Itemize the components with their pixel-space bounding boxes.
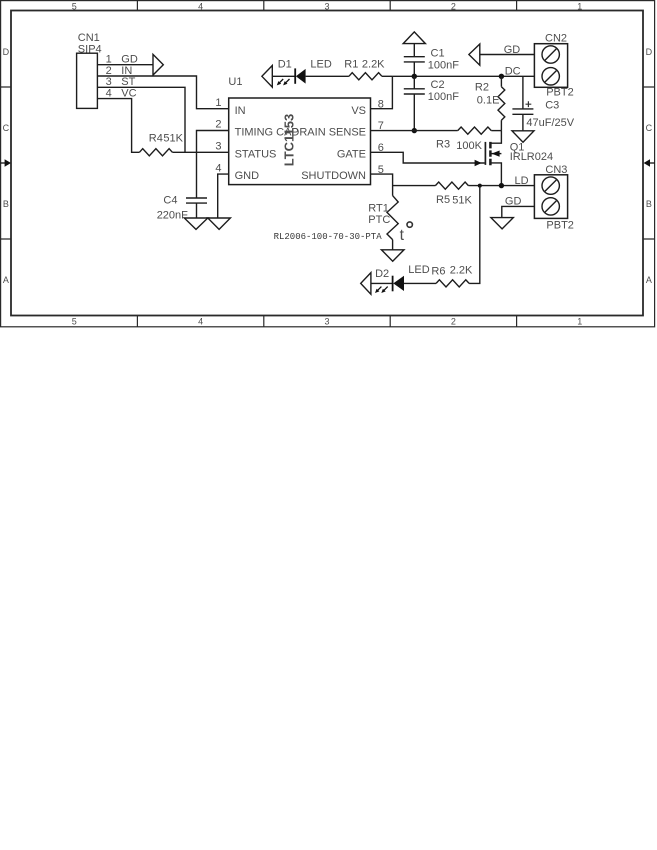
wire rail to R2 — [500, 76, 502, 86]
frame column ticks bottom — [137, 316, 516, 327]
transistor Q1 gate bar — [484, 142, 486, 165]
svg-text:SIP4: SIP4 — [78, 43, 102, 55]
svg-text:R3: R3 — [436, 138, 450, 150]
svg-text:D2: D2 — [375, 268, 389, 280]
svg-text:IRLR024: IRLR024 — [510, 151, 553, 163]
wire U1 DRAIN SENSE pin7 to R3 — [371, 130, 458, 132]
D2 emission arrows — [375, 287, 388, 293]
svg-text:3: 3 — [324, 1, 329, 11]
svg-text:LED: LED — [408, 264, 429, 276]
svg-text:C1: C1 — [431, 48, 445, 60]
svg-text:t: t — [400, 227, 405, 244]
Q1 channel segments — [489, 142, 492, 165]
svg-text:C4: C4 — [163, 194, 177, 206]
connector CN1 body — [77, 53, 98, 108]
svg-text:3: 3 — [106, 76, 112, 88]
wire GD to CN2 pin1 — [480, 54, 535, 56]
svg-text:100nF: 100nF — [428, 59, 459, 71]
wire port to D1 cathode — [272, 75, 295, 77]
resistor R1 — [349, 73, 382, 80]
svg-text:D: D — [3, 47, 10, 57]
wire R6 up to LD node — [469, 186, 480, 284]
svg-text:3: 3 — [324, 317, 329, 327]
svg-text:DRAIN SENSE: DRAIN SENSE — [291, 127, 366, 139]
svg-text:A: A — [3, 275, 9, 285]
svg-text:LED: LED — [310, 59, 331, 71]
svg-text:CN3: CN3 — [545, 164, 567, 176]
frame row ticks right — [643, 87, 655, 239]
svg-text:DC: DC — [505, 65, 521, 77]
svg-text:1: 1 — [577, 1, 582, 11]
svg-text:GD: GD — [121, 54, 138, 66]
LED D2 triangle — [393, 276, 404, 291]
resistor R3 — [458, 127, 492, 134]
svg-text:U1: U1 — [228, 76, 242, 88]
svg-text:VS: VS — [351, 105, 366, 117]
capacitor C3 plus sign — [526, 101, 532, 107]
LED D2 cathode bar — [392, 276, 394, 292]
svg-text:D1: D1 — [278, 59, 292, 71]
svg-text:LD: LD — [515, 175, 529, 187]
svg-text:IN: IN — [121, 65, 132, 77]
svg-text:2: 2 — [451, 317, 456, 327]
svg-text:100nF: 100nF — [428, 91, 459, 103]
wire U1 SHUTDOWN pin5 down — [371, 174, 393, 196]
CN2 screw terminal 2 — [542, 68, 559, 85]
wire CN1 pin2 IN to U1 pin1 — [97, 76, 228, 109]
svg-text:RT1: RT1 — [368, 202, 389, 214]
LED D1 triangle — [296, 69, 306, 84]
CN3 screw terminal 2 — [542, 198, 559, 215]
ground under CN3 — [491, 218, 513, 229]
frame row letters right — [646, 47, 653, 285]
wire C3 to ground — [522, 114, 524, 131]
svg-text:R5: R5 — [436, 194, 450, 206]
power symbol above C1 — [403, 32, 425, 44]
svg-text:GATE: GATE — [337, 148, 366, 160]
svg-text:1: 1 — [577, 317, 582, 327]
wire VS rail to CN2 — [392, 75, 534, 77]
frame inner border — [11, 11, 643, 316]
svg-text:2.2K: 2.2K — [362, 59, 385, 71]
wire RT1 to ground — [392, 240, 394, 250]
capacitor C4 — [186, 198, 207, 203]
connector CN2 body — [534, 44, 567, 88]
wire D1 to R1 — [306, 75, 349, 77]
wire CN3 pin2 GD to ground — [502, 206, 535, 217]
op-amp U1 LTC1153 box — [229, 98, 371, 185]
svg-text:4: 4 — [198, 317, 203, 327]
svg-text:IN: IN — [235, 105, 246, 117]
svg-text:PBT2: PBT2 — [546, 220, 574, 232]
wire R5 to LD line and CN3 — [468, 185, 534, 187]
svg-text:2: 2 — [106, 65, 112, 77]
wire CN1 pin3 ST to STATUS line — [97, 87, 185, 152]
port arrow at D1 — [262, 66, 272, 88]
svg-text:5: 5 — [72, 1, 77, 11]
svg-text:3: 3 — [215, 141, 221, 153]
svg-text:C3: C3 — [545, 99, 559, 111]
svg-text:1: 1 — [215, 97, 221, 109]
LED D1 cathode bar — [294, 68, 296, 83]
frame column numbers bottom — [72, 317, 583, 327]
wire CN1 pin4 VC down to R4 — [97, 99, 139, 153]
CN2 screw terminal 1 — [542, 46, 559, 63]
frame outer border — [1, 1, 655, 327]
ground under C3 — [512, 131, 534, 142]
svg-text:C: C — [3, 123, 10, 133]
wire R4 to U1 STATUS pin3 — [172, 151, 228, 153]
wire VS pin8 riser — [371, 76, 393, 108]
svg-text:220nF: 220nF — [157, 210, 188, 222]
D1 emission arrows — [277, 79, 290, 85]
wire U1 GND pin4 to ground — [218, 174, 229, 218]
wire C1 to rail — [413, 62, 415, 76]
frame column ticks top — [137, 1, 516, 11]
capacitor C2 — [404, 89, 425, 94]
svg-text:2: 2 — [451, 1, 456, 11]
svg-text:0.1E: 0.1E — [477, 94, 500, 106]
svg-text:GND: GND — [235, 170, 260, 182]
svg-text:C2: C2 — [431, 79, 445, 91]
frame centering arrow right — [649, 162, 654, 164]
ground under U1 GND pin — [208, 218, 231, 229]
wire CN1 pin1 to GD port — [97, 64, 153, 66]
frame row letters left — [3, 47, 10, 285]
frame row ticks left — [1, 87, 11, 239]
svg-text:R2: R2 — [475, 81, 489, 93]
svg-text:4: 4 — [106, 88, 112, 100]
thermistor RT1 — [387, 196, 398, 240]
svg-text:D: D — [646, 47, 653, 57]
svg-text:2.2K: 2.2K — [450, 265, 473, 277]
ground under C4 — [184, 218, 208, 229]
port arrow GD at CN1 — [153, 54, 163, 75]
frame centering arrow left — [1, 162, 6, 164]
wire R3 to drain node — [491, 130, 501, 132]
connector CN3 body — [534, 175, 567, 219]
Q1 source connection — [490, 163, 501, 186]
junction C2 / drain sense — [412, 128, 417, 133]
Q1 body arrow — [492, 151, 500, 157]
junction Q1 source / LD line — [499, 183, 504, 188]
svg-text:PTC: PTC — [368, 214, 390, 226]
svg-text:47uF/25V: 47uF/25V — [526, 117, 574, 129]
ground under RT1 — [381, 250, 404, 261]
wire R2 to drain node — [500, 120, 502, 130]
wire C3 branch from rail — [522, 76, 524, 109]
Q1 body connection — [490, 153, 501, 155]
svg-text:CN1: CN1 — [78, 32, 100, 44]
svg-text:TIMING CAP: TIMING CAP — [235, 127, 299, 139]
port arrow GD top — [469, 44, 480, 65]
svg-text:4: 4 — [198, 1, 203, 11]
resistor R4 — [139, 149, 172, 156]
svg-text:PBT2: PBT2 — [546, 86, 574, 98]
wire U1 TIMING CAP pin2 to C4 — [197, 131, 229, 199]
wire C2 to drain sense line — [413, 94, 415, 131]
junction rail / R2 — [499, 74, 504, 79]
wire R1 to VS rail corner — [382, 75, 393, 77]
svg-text:STATUS: STATUS — [235, 148, 277, 160]
capacitor C1 — [404, 57, 425, 62]
junction R6 riser / LD line — [478, 184, 482, 188]
frame column numbers top — [72, 1, 583, 11]
svg-text:RL2006-100-70-30-PTA: RL2006-100-70-30-PTA — [274, 232, 383, 242]
CN3 screw terminal 1 — [542, 177, 559, 194]
svg-text:LTC1153: LTC1153 — [282, 114, 297, 167]
svg-text:B: B — [646, 199, 652, 209]
wire shutdown node to R5 — [393, 185, 436, 187]
wire D2 to R6 — [404, 282, 436, 284]
svg-text:2: 2 — [215, 119, 221, 131]
wire U1 GATE pin6 to Q1 gate — [371, 152, 485, 163]
resistor R5 — [435, 182, 468, 189]
wire rail to C2 — [413, 76, 415, 89]
wire C4 to ground — [196, 203, 198, 218]
port arrow at D2 — [361, 273, 371, 295]
svg-text:51K: 51K — [452, 195, 472, 207]
svg-text:4: 4 — [215, 162, 221, 174]
resistor R6 — [436, 280, 469, 287]
svg-text:R6: R6 — [431, 266, 445, 278]
svg-text:CN2: CN2 — [545, 33, 567, 45]
svg-text:1: 1 — [106, 54, 112, 66]
gate direction arrow — [475, 160, 482, 166]
svg-text:B: B — [3, 199, 9, 209]
Q1 drain connection — [490, 131, 501, 144]
wire power to C1 — [413, 44, 415, 57]
svg-text:R4: R4 — [149, 133, 163, 145]
svg-text:R1: R1 — [344, 59, 358, 71]
resistor R2 — [498, 87, 505, 121]
svg-text:SHUTDOWN: SHUTDOWN — [301, 170, 366, 182]
junction VS rail / C1 C2 — [412, 74, 417, 79]
svg-text:C: C — [646, 123, 653, 133]
wire port to D2 cathode — [371, 282, 393, 284]
svg-text:100K: 100K — [456, 140, 482, 152]
svg-text:A: A — [646, 275, 652, 285]
capacitor C3 — [512, 109, 533, 114]
svg-text:VC: VC — [121, 88, 136, 100]
svg-text:5: 5 — [72, 317, 77, 327]
svg-text:ST: ST — [121, 76, 135, 88]
svg-text:51K: 51K — [163, 133, 183, 145]
